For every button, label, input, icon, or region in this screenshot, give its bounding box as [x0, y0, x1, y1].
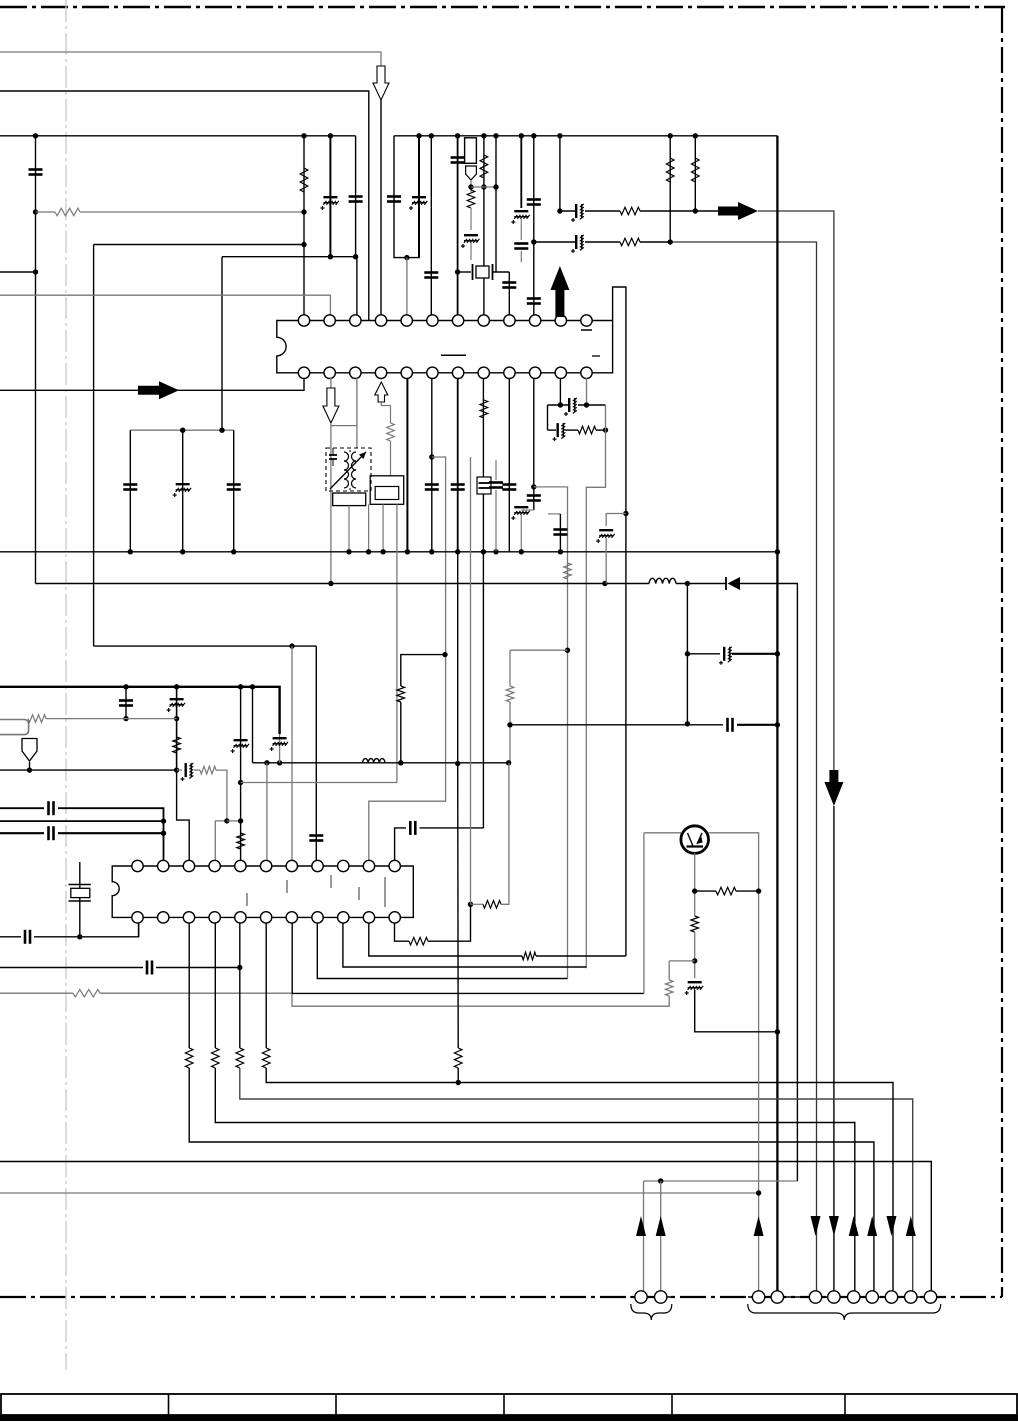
junction rail x521.3: [519, 549, 524, 554]
shield box SB1: [333, 493, 366, 506]
junction rail x483.4: [481, 549, 486, 554]
capacitor C30: [728, 718, 733, 732]
resistor R20: [185, 1048, 193, 1068]
junction y430.2 x222: [219, 428, 224, 433]
wire loop bottom b: [565, 429, 578, 431]
wire main rail right vertical x777.4: [776, 136, 778, 1297]
op-amp U1 pin 11 top: [555, 315, 566, 326]
resistor R14: [397, 686, 405, 702]
capacitor C23 electrolytic: [553, 423, 566, 441]
junction top rail x670.2: [668, 133, 673, 138]
op-amp U1 pin 15 bottom: [350, 367, 361, 378]
junction x176.6 y770.1: [174, 767, 179, 772]
capacitor C38: [25, 930, 30, 944]
junction y763 x457.7: [455, 761, 460, 766]
wire pin14b x189.2 c: [189, 1068, 874, 1291]
junction x126 y718.6: [123, 716, 128, 721]
junction top rail x496: [493, 133, 498, 138]
U2 label tick 1: [246, 893, 248, 906]
signal flow arrow up hollow pin4b: [375, 382, 388, 402]
wire net y808.2 b: [58, 808, 164, 860]
connector P2: [655, 1291, 667, 1303]
wire x400.8 up: [400, 702, 402, 763]
signal arrow up c660: [656, 1216, 666, 1236]
wire y653.8 b: [732, 653, 777, 655]
wire stub y272 from left edge: [0, 271, 36, 273]
op-amp U2 pin 17 bottom: [260, 912, 271, 923]
wire TP1 to R3: [470, 180, 472, 192]
junction x559.9 y211: [557, 208, 562, 213]
wire top rail right segment: [394, 135, 777, 137]
capacitor C19: [489, 483, 503, 488]
wire pin17b x266.2: [265, 923, 267, 1048]
wire net y770.1 d: [216, 770, 227, 821]
op-amp U1 pin 17 bottom: [401, 367, 412, 378]
wire net y1161.5: [0, 1162, 931, 1292]
op-amp U2 pin 9 top: [338, 860, 349, 871]
wire net y295 grey: [0, 295, 330, 317]
transformer T1 windings: [344, 452, 349, 461]
signal flow arrow right (row1): [718, 202, 758, 220]
wire x560.4 cap col: [559, 514, 561, 552]
wire loop top b: [578, 404, 606, 406]
capacitor C16: [425, 485, 439, 490]
resistor R15: [173, 737, 181, 753]
wire x496 below: [495, 490, 497, 552]
wire x687.4 down: [686, 584, 688, 724]
wire net y1181 grey: [644, 1180, 798, 1182]
wire loop bottom c: [596, 429, 606, 431]
wire C21 to rail: [520, 515, 522, 552]
wire pin1 top none: [79, 856, 81, 862]
op-amp U2 pin 6 top: [260, 860, 271, 871]
op-amp U1 pin 18 bottom: [427, 367, 438, 378]
resistor R9: [387, 423, 395, 441]
wire x694.7 down: [694, 932, 696, 978]
capacitor C33 electrolytic: [231, 740, 249, 753]
wire Q1 emitter down: [694, 853, 696, 916]
junction top rail x431.3: [429, 133, 434, 138]
junction x457.6 y272: [455, 269, 460, 274]
wire R9 to filter box: [390, 406, 392, 424]
signal arrow up c641: [636, 1216, 646, 1236]
junction x560.4 y405: [558, 402, 563, 407]
wire y653.8 a: [687, 653, 720, 655]
U2 label tick 3: [330, 875, 332, 888]
op-amp U2 pin 16 bottom: [235, 912, 246, 923]
capacitor C7: [451, 158, 465, 163]
op-amp U2 pin 18 bottom: [286, 912, 297, 923]
resistor R19: [73, 989, 100, 997]
brace right connector group: [748, 1304, 941, 1320]
wire x292 to pin7 top: [291, 646, 293, 860]
signal flow arrow big up x559.9: [550, 266, 569, 317]
wire y891.1 a: [695, 890, 716, 892]
wire x660.7 to connector: [660, 1181, 662, 1291]
crystal X1: [472, 264, 474, 280]
op-amp U1 pin 9 top: [504, 315, 515, 326]
wire connector solid segment left: [630, 1296, 672, 1298]
wire loop bottom: [548, 429, 557, 431]
capacitor C34 electrolytic: [270, 738, 288, 751]
signal arrow up c872: [867, 1216, 877, 1236]
junction y257.6 x406.9: [404, 255, 409, 260]
junction x777.4 y653.8: [775, 651, 780, 656]
junction rail2 x126: [123, 684, 128, 689]
wire net y833.2 b: [58, 832, 164, 834]
wire row1 to x836 corner: [758, 211, 834, 770]
op-amp U2 pin 3 top: [183, 860, 194, 871]
resistor R28: [716, 887, 736, 895]
trimmer capacitor CT1: [477, 477, 491, 494]
wire y513.9 stub: [548, 513, 560, 515]
resistor R26: [483, 901, 501, 909]
junction rail x182.7: [180, 549, 185, 554]
junction x35.5 y272: [33, 269, 38, 274]
capacitor C9: [502, 283, 516, 288]
wire pin5 top feed: [406, 258, 408, 317]
inductor L2: [363, 759, 386, 763]
wire y782.5 branch: [241, 782, 397, 784]
wire net y430.2: [130, 429, 233, 431]
junction x471 y187: [468, 184, 473, 189]
junction top rail x533.8: [531, 133, 536, 138]
wire crystal right: [493, 271, 510, 273]
border frame right dash-dot: [1001, 7, 1003, 1297]
wire row2 a: [534, 241, 576, 243]
wire y212 grey: [80, 211, 304, 213]
junction y583.5 x330.9: [328, 581, 333, 586]
wire pin11b down: [559, 378, 561, 405]
wire pin19b x317.3: [317, 923, 567, 979]
ceramic filter CF1 inner: [375, 487, 399, 500]
junction rail x431.8: [429, 549, 434, 554]
junction top rail x559.9: [557, 133, 562, 138]
wire x625.9 branch: [606, 514, 626, 527]
wire pin4b jog: [381, 402, 390, 406]
capacitor C14 electrolytic: [571, 204, 584, 222]
wire pin12b down x137.5: [138, 923, 140, 937]
op-amp U1 pin 5 top: [401, 315, 412, 326]
junction rail x383.1: [380, 549, 385, 554]
capacitor C35 electrolytic: [181, 763, 194, 781]
junction y583.5 x687.4: [685, 581, 690, 586]
junction x625.9 y513.5: [623, 511, 628, 516]
connector P7: [848, 1291, 860, 1303]
transformer T1 dashed box: [326, 448, 371, 491]
capacitor C32 electrolytic: [167, 699, 185, 712]
wire pin15b x215.3 c: [215, 1068, 855, 1291]
wire net y646.1: [94, 645, 317, 647]
capacitor C25: [123, 485, 137, 490]
junction x292 y646.1: [289, 643, 294, 648]
capacitor C18: [502, 485, 516, 490]
wire Q1 base left: [644, 832, 681, 834]
wire pin11 U2 top feed b: [420, 827, 484, 829]
test point TP2 pentagon: [22, 739, 37, 762]
wire R1 to x304: [36, 211, 56, 213]
wire C8 down: [470, 243, 472, 260]
wire pin21b x368.8: [369, 923, 522, 956]
op-amp U1 pin 19 bottom: [452, 367, 463, 378]
wire SB1 bottom feed a: [348, 506, 350, 552]
wire x669.2 up: [668, 961, 670, 980]
capacitor C40 electrolytic: [685, 982, 703, 995]
capacitor C41: [410, 821, 415, 835]
wire pin2b to transformer: [330, 423, 332, 584]
wire column x533.8: [533, 136, 535, 317]
signal flow arrow down (hollow) on x381: [373, 66, 389, 100]
wire pin6b down: [431, 378, 433, 552]
junction x163.5 y833.2: [161, 831, 166, 836]
junction top rail x304: [301, 133, 306, 138]
wire net y993.2 grey b: [100, 993, 669, 1006]
op-amp U1 pin 16 bottom: [375, 367, 386, 378]
capacitor C17: [451, 485, 465, 490]
resistor R7: [666, 158, 674, 182]
resistor R16: [237, 833, 245, 849]
connector P10: [905, 1291, 917, 1303]
op-amp U2 pin 14 bottom: [183, 912, 194, 923]
wire row1 c: [640, 210, 718, 212]
wire column x431.3: [430, 136, 432, 317]
resistor R3: [467, 190, 475, 208]
op-amp U2 pin 19 bottom: [312, 912, 323, 923]
resistor R6: [620, 238, 640, 246]
junction x660.7 y1181: [658, 1178, 663, 1183]
capacitor C15 electrolytic: [571, 235, 584, 253]
wire row1 b: [585, 210, 620, 212]
wire net y390.3: [0, 378, 304, 390]
wire col x240.6: [240, 687, 242, 860]
connector P8: [866, 1291, 878, 1303]
capacitor C6: [424, 273, 438, 278]
wire column x483.9: [483, 136, 485, 317]
ceramic filter CF1 outer: [370, 476, 404, 505]
junction x304 y212: [301, 209, 306, 214]
wire column x304 rail to pin1: [303, 136, 305, 317]
transistor Q1: [681, 826, 709, 854]
capacitor C24: [553, 530, 567, 535]
wire x381 down to IC pin4 top: [380, 100, 382, 317]
wire x833.9 arrow to connector: [833, 806, 835, 1297]
wire gnd rail2 y686.8: [0, 687, 280, 734]
wire net y256.7: [222, 256, 356, 258]
resistor R5: [620, 207, 640, 215]
wire y723.8 a: [510, 724, 723, 726]
capacitor C11: [514, 244, 528, 249]
wire column x355.6: [355, 136, 357, 257]
resistor R21: [212, 1048, 220, 1068]
wire pin14b x189.2: [188, 923, 190, 1048]
junction x355.6 y256.7: [353, 254, 358, 259]
wire column x695.3: [694, 136, 696, 211]
wire net y244.5: [94, 244, 304, 246]
wire pin10b down: [533, 378, 535, 510]
junction x470.5 y904.3: [468, 902, 473, 907]
op-amp U2 pin 11 top: [389, 860, 400, 871]
wire net y583.5 b: [676, 583, 726, 585]
op-amp U2 IC body: [112, 866, 413, 917]
wire C40 down to gnd: [695, 990, 778, 1032]
wire y650.2: [510, 649, 568, 651]
op-amp U1 pin 12 top: [581, 315, 592, 326]
capacitor C26 electrolytic: [173, 484, 191, 497]
border frame bottom dash-dot: [0, 1296, 1002, 1298]
crystal X2: [69, 884, 91, 886]
wire net y833.2: [0, 832, 44, 834]
op-amp U1 pin 23 bottom: [555, 367, 566, 378]
wire C10 down: [520, 219, 522, 240]
op-amp U1 pin 21 bottom: [504, 367, 515, 378]
resistor R12: [578, 426, 596, 434]
wire R9 down to filter box: [390, 441, 392, 476]
junction x533.8 y242: [531, 239, 536, 244]
wire pin6 feed: [266, 763, 268, 860]
wire pin3 feed jog: [177, 770, 190, 860]
junction x35.5 y212: [33, 209, 38, 214]
junction x694.7 y960.9: [692, 958, 697, 963]
junction x176.6 y718.6: [174, 716, 179, 721]
wire loop left: [547, 405, 549, 430]
inductor L1: [649, 578, 676, 583]
resistor R23: [262, 1048, 270, 1068]
op-amp U2 pin 20 bottom: [338, 912, 349, 923]
signal flow arrow right y390.3: [138, 381, 179, 399]
junction x605.5 y430.1: [603, 427, 608, 432]
wire x431.8 branch to x445: [369, 457, 446, 860]
wire pin2b down: [330, 378, 332, 388]
op-amp U1 pin 7 top: [452, 315, 463, 326]
capacitor C29 electrolytic: [719, 647, 732, 665]
wire column x222: [221, 257, 223, 431]
capacitor C31: [119, 701, 133, 706]
filter FL1 body: [465, 138, 477, 164]
capacitor C12: [527, 200, 541, 205]
junction x567.5 y650.2: [565, 648, 570, 653]
transformer T1 primary cap: [329, 454, 337, 456]
connector P1: [635, 1291, 647, 1303]
wire pin9 top feed: [508, 272, 510, 317]
op-amp U1 pin 13 bottom: [298, 367, 309, 378]
wire column x35.5: [35, 136, 37, 584]
wire pin12b down: [586, 378, 588, 405]
junction x240.6 y782.5: [238, 780, 243, 785]
op-amp U2 pin 5 top: [235, 860, 246, 871]
wire col x279.6 elec: [279, 734, 281, 763]
resistor R18: [200, 766, 216, 774]
junction x496 y187: [493, 184, 498, 189]
capacitor C36: [49, 801, 54, 815]
resistor R29: [691, 916, 699, 932]
connector P4: [771, 1291, 783, 1303]
wire row2 c: [640, 241, 670, 243]
border frame top dash-dot: [0, 6, 1005, 8]
junction y763 x266.9: [264, 760, 269, 765]
U2 label tick 4: [384, 877, 386, 907]
U2 label tick 2: [286, 880, 288, 893]
wire net y583.5 c: [740, 584, 797, 1182]
wire column x496: [495, 136, 497, 272]
grid line left grey dash-dot: [65, 0, 67, 1370]
wire C11 down: [520, 251, 522, 262]
op-amp U1 pin 4 top: [375, 315, 386, 326]
op-amp U1 pin 14 bottom: [324, 367, 335, 378]
junction rail2 x176.6: [174, 684, 179, 689]
wire net y967.5 b: [156, 967, 240, 969]
op-amp U2 pin 7 top: [286, 860, 297, 871]
junction x687.4 y723.8: [685, 721, 690, 726]
junction y430.2 x182.7: [180, 428, 185, 433]
wire row2 b: [585, 241, 620, 243]
op-amp U1 pin 1 top: [298, 315, 309, 326]
junction rail x777.4: [775, 549, 780, 554]
capacitor C4: [387, 197, 401, 202]
wire y904.3 link: [471, 903, 484, 905]
capacitor C2 electrolytic: [320, 197, 338, 210]
connector P9: [885, 1291, 897, 1303]
wire col x182.7: [182, 430, 184, 552]
wire column x559.9: [559, 136, 561, 211]
junction rail2 x252.5: [250, 684, 255, 689]
signal arrow up c910: [906, 1216, 916, 1236]
jack J1 body: [0, 720, 29, 735]
junction top rail x330.4: [328, 133, 333, 138]
wire CF1 right feed x396.9: [396, 504, 398, 782]
op-amp U1 pin 20 bottom: [478, 367, 489, 378]
wire net y936.8 a: [0, 936, 21, 938]
junction y763 x400.8: [398, 760, 403, 765]
junction rail x457.7: [455, 549, 460, 554]
wire net VCC-A top grey: [0, 52, 381, 66]
junction x758.6 y1193: [756, 1190, 761, 1195]
resistor R11: [564, 563, 572, 579]
wire net y763.3: [253, 762, 511, 764]
junction top rail x695.3: [693, 133, 698, 138]
wire column x521.3: [520, 136, 522, 208]
capacitor C39: [147, 961, 152, 975]
wire pin21b x368.8 c: [536, 955, 626, 957]
wire net y770.1 a: [0, 769, 177, 771]
signal arrow down c891: [887, 1216, 897, 1236]
junction x445 y654.6: [442, 652, 447, 657]
wire net y936.8 b: [34, 923, 139, 937]
U2 label tick 5: [358, 887, 360, 900]
op-amp U2 pin 1 top: [132, 860, 143, 871]
junction x163.5 y821.1: [161, 818, 166, 823]
capacitor C5 electrolytic: [409, 197, 427, 210]
resistor R10: [480, 400, 488, 418]
wire x510 column b: [509, 702, 511, 763]
wire row2 d: [670, 242, 816, 1297]
wire pin10b to elec: [521, 509, 534, 511]
op-amp U2 pin 21 bottom: [363, 912, 374, 923]
wire y187 link: [471, 186, 496, 188]
junction x240.6 y820.9: [238, 818, 243, 823]
junction x226.9 y820.9: [224, 818, 229, 823]
wire net y1193 grey: [0, 1192, 759, 1194]
op-amp U1 pin 22 bottom: [529, 367, 540, 378]
wire net signal y91: [0, 91, 369, 321]
capacitor C37: [49, 826, 54, 840]
capacitor C10 electrolytic: [511, 211, 529, 224]
junction x586.5 y405: [584, 402, 589, 407]
junction x510 y724.8: [507, 722, 512, 727]
op-amp U2 pin 10 top: [363, 860, 374, 871]
connector P3: [752, 1291, 764, 1303]
wire CF1 bottom feed b: [368, 504, 370, 552]
wire column x93.6: [93, 245, 95, 647]
